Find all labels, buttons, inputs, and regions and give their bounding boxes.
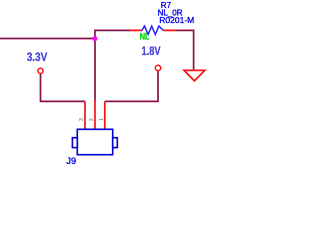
wire net 3.3V horizontal into junction — [0, 38, 95, 40]
power port 1.8V circle — [155, 65, 160, 70]
resistor R7 zigzag — [142, 26, 163, 34]
svg-text:3: 3 — [79, 118, 85, 121]
junction dot — [92, 36, 97, 41]
svg-text:J9: J9 — [66, 156, 76, 166]
svg-text:1.8V: 1.8V — [142, 46, 161, 58]
ground symbol — [184, 70, 205, 81]
svg-text:2: 2 — [89, 118, 95, 121]
J9 pin 2 (middle) — [94, 100, 96, 129]
resistor R7 pins — [130, 29, 177, 31]
J9 pin 3 (left) — [84, 101, 86, 129]
wire top rail to resistor left pin — [94, 29, 130, 31]
svg-text:NL: NL — [140, 32, 150, 43]
connector J9 body — [77, 129, 112, 154]
svg-text:R0201-M: R0201-M — [159, 15, 194, 25]
wire 3.3V port down and right to J9 pin 3 — [41, 73, 86, 101]
svg-text:3.3V: 3.3V — [27, 52, 48, 64]
connector J9 left tab — [72, 138, 77, 148]
wire resistor right pin to ground drop — [176, 30, 194, 70]
wire junction down to J9 pin 2 — [94, 39, 96, 101]
J9 pin 1 (right) — [104, 101, 106, 129]
power port 3.3V circle — [38, 68, 43, 73]
wire junction up to top rail — [94, 30, 96, 39]
svg-text:1: 1 — [99, 118, 105, 121]
connector J9 right tab — [113, 138, 118, 148]
wire 1.8V port down and left to J9 pin 1 — [105, 71, 158, 102]
